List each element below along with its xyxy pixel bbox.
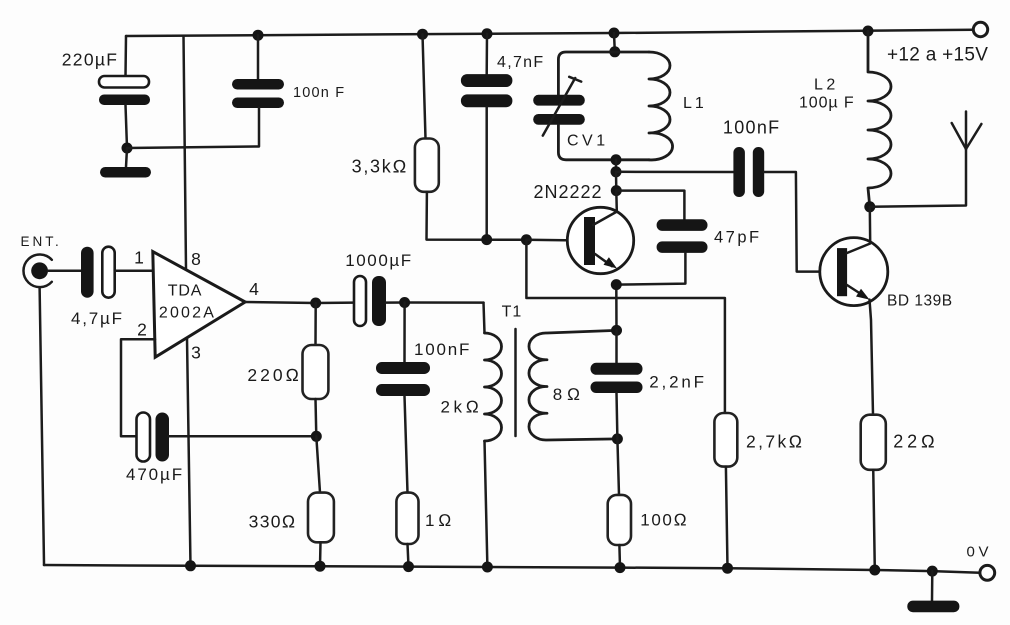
resistor 330R: [308, 493, 334, 543]
wire antenna feed: [870, 112, 966, 207]
svg-text:2002A: 2002A: [159, 305, 216, 322]
resistor 2,7k: [714, 413, 737, 467]
node tank bottom junction: [611, 154, 622, 165]
svg-text:2N2222: 2N2222: [534, 182, 603, 202]
wire ENT to 4,7uF: [48, 270, 81, 273]
wire 220R top: [314, 303, 317, 345]
node 2,7k ground junction: [722, 563, 733, 574]
node T1 secondary bottom junction: [612, 433, 623, 444]
svg-text:1: 1: [134, 248, 144, 268]
svg-text:1Ω: 1Ω: [425, 511, 455, 530]
svg-text:0V: 0V: [967, 544, 993, 561]
svg-text:4,7µF: 4,7µF: [71, 309, 124, 328]
node T1 secondary top junction: [611, 325, 622, 336]
svg-text:L1: L1: [683, 95, 707, 112]
terminal 0V: [980, 565, 995, 580]
svg-text:100nF: 100nF: [414, 340, 471, 359]
wire 3,3k top: [417, 29, 428, 40]
svg-text:47pF: 47pF: [714, 229, 762, 247]
node 220uF/100nF junction: [122, 143, 133, 154]
transistor Q1 2N2222: [567, 207, 633, 273]
node ground tap junction: [927, 566, 938, 577]
node 1000uF/100nF junction: [399, 297, 410, 308]
svg-text:100µ F: 100µ F: [799, 95, 855, 112]
tank top edge and left side upper: [558, 52, 649, 95]
wire emitter down: [615, 285, 618, 331]
wire top +V rail: [126, 30, 974, 36]
wire bias down and right to 2,7k: [526, 240, 725, 413]
connector ENT. (RCA jack): [23, 255, 51, 288]
svg-text:TDA: TDA: [168, 283, 202, 300]
capacitor 4,7uF: [81, 247, 115, 298]
wire 100R bottom: [618, 545, 621, 568]
resistor 1R: [396, 493, 418, 544]
wire to 100nF coupling: [616, 171, 733, 174]
node 330R ground junction: [315, 561, 326, 572]
wire T1 primary to ground rail: [485, 441, 488, 567]
wire 47pF bottom branch: [616, 253, 685, 285]
capacitor CV1 variable: [533, 77, 585, 136]
capacitor 1000uF: [354, 276, 386, 326]
svg-text:3: 3: [191, 342, 201, 362]
node 100nF branch junction: [611, 166, 622, 177]
wire 100nF mid top: [403, 303, 406, 363]
wire 100nF mid to 1R: [405, 396, 408, 493]
tank left side lower and bottom edge: [558, 125, 649, 160]
svg-text:2: 2: [137, 320, 147, 340]
node tank top junction: [609, 46, 620, 57]
resistor 22R: [861, 415, 886, 470]
svg-text:BD 139B: BD 139B: [887, 293, 953, 310]
wire 1R bottom: [408, 544, 409, 567]
wire BD139 emitter to 22R: [870, 300, 874, 415]
wire 4,7nF top: [485, 34, 488, 74]
wire 22R bottom: [873, 470, 875, 570]
wire 220R bottom: [314, 399, 317, 436]
node 22R ground junction: [869, 565, 880, 576]
wire pin 3 to ground rail: [187, 339, 191, 566]
wire bottom ground rail: [44, 565, 980, 573]
transformer T1 primary lead: [484, 303, 485, 333]
node emitter junction: [611, 279, 622, 290]
wire collector: [615, 191, 618, 212]
transformer T1 primary winding: [485, 333, 502, 441]
wire 100nF bottom to junction: [127, 108, 259, 148]
antenna: [952, 123, 982, 149]
wire 3,3k bottom to base node: [427, 192, 527, 240]
transformer T1 secondary winding: [529, 330, 617, 440]
capacitor 100nF (mid): [376, 362, 430, 396]
svg-text:100Ω: 100Ω: [640, 511, 688, 530]
svg-text:330Ω: 330Ω: [249, 512, 297, 532]
wire down to 47pF node: [615, 172, 618, 191]
wire junction to ground: [126, 148, 127, 167]
node T1 ground junction: [482, 562, 493, 573]
resistor 220R: [303, 345, 329, 399]
node 4,7nF junction top rail: [482, 28, 493, 39]
ground bottom-right: [907, 601, 959, 613]
svg-text:L2: L2: [814, 77, 839, 94]
svg-text:8: 8: [191, 249, 201, 269]
node L2 top rail junction: [863, 26, 874, 37]
svg-text:2kΩ: 2kΩ: [441, 398, 483, 417]
svg-text:+12 a +15V: +12 a +15V: [887, 45, 988, 66]
capacitor 47pF: [657, 219, 708, 253]
svg-text:CV1: CV1: [567, 133, 609, 150]
capacitor 100nF coupling (right): [733, 147, 764, 197]
svg-text:220µF: 220µF: [62, 50, 118, 70]
capacitor 2,2nF: [591, 363, 643, 393]
node 1R ground junction: [403, 561, 414, 572]
wire BD139 collector: [869, 207, 872, 244]
wire rail to tank: [613, 33, 616, 52]
svg-text:2,2nF: 2,2nF: [649, 373, 706, 392]
wire 4,7uF to pin 1: [115, 270, 153, 273]
wire 100nF top lead: [257, 35, 260, 79]
wire 4,7nF bottom: [485, 107, 488, 239]
wire ENT down left side: [40, 287, 44, 565]
wire ground stub: [931, 571, 934, 601]
svg-text:3,3kΩ: 3,3kΩ: [352, 157, 408, 177]
wire 2,2nF bottom: [615, 393, 618, 439]
capacitor 4,7nF: [461, 74, 513, 107]
capacitor C 220uF: [99, 76, 150, 105]
wire 1000uF to T1: [386, 301, 484, 304]
node 4,7nF/bias junction: [481, 234, 492, 245]
transistor Q2 BD139B: [820, 238, 888, 306]
svg-text:8Ω: 8Ω: [553, 385, 585, 404]
wire pin 2 feedback: [121, 339, 155, 436]
wire 47pF top branch: [616, 191, 684, 220]
node pin4/220R junction: [310, 298, 321, 309]
wire 220uF neg lead: [126, 105, 128, 148]
transformer T1 core: [514, 329, 517, 436]
wire 100nF to BD139 base: [764, 172, 837, 272]
wire 330R bottom: [319, 542, 322, 566]
svg-text:100n F: 100n F: [293, 85, 345, 101]
svg-text:ENT.: ENT.: [21, 234, 62, 249]
resistor 100R: [608, 495, 631, 545]
inductor L2: [868, 31, 891, 207]
wire 330R top: [316, 436, 320, 492]
node tank top rail junction: [609, 28, 620, 39]
resistor 3,3k: [415, 139, 439, 192]
wire base junction to 2N2222 base: [526, 239, 584, 242]
svg-text:100nF: 100nF: [723, 118, 781, 138]
wire 220uF top lead: [124, 36, 127, 76]
op-amp U1 TDA2002A: [153, 252, 245, 358]
wire 2,7k bottom: [726, 467, 728, 569]
node 100R ground junction: [615, 562, 626, 573]
wire tank bottom to 100nF node: [615, 160, 618, 172]
svg-text:T1: T1: [502, 304, 523, 321]
node collector/47pF junction: [611, 185, 622, 196]
capacitor 470uF: [137, 413, 170, 462]
svg-text:4: 4: [249, 279, 259, 299]
wire pin 4 output: [245, 302, 354, 303]
node 100nF top rail junction: [253, 30, 264, 41]
wire pin8 supply line: [184, 36, 187, 269]
capacitor 100nF (top left): [232, 79, 284, 108]
node L2/antenna/collector junction: [864, 201, 875, 212]
wire 470uF to junction: [169, 435, 317, 438]
svg-text:22Ω: 22Ω: [893, 432, 938, 452]
svg-text:220Ω: 220Ω: [247, 365, 302, 385]
node pin3 ground junction: [185, 560, 196, 571]
terminal +V: [973, 22, 987, 36]
svg-text:2,7kΩ: 2,7kΩ: [746, 432, 805, 452]
svg-text:1000µF: 1000µF: [345, 251, 413, 270]
node 470uF/220R/330R junction: [311, 431, 322, 442]
wire 2,2nF top: [615, 330, 618, 362]
svg-text:470µF: 470µF: [126, 465, 184, 484]
inductor L1: [649, 52, 673, 160]
ground top-left: [100, 167, 151, 178]
wire T1 sec to 100R: [617, 439, 619, 495]
node base junction: [521, 234, 532, 245]
svg-text:4,7nF: 4,7nF: [497, 54, 544, 71]
